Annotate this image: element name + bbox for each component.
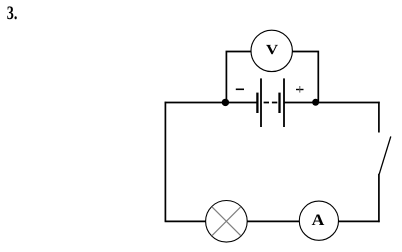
svg-text:V: V (266, 43, 278, 58)
wire: voltmeter branch right (meter right and down to dot) (292, 52, 318, 103)
ammeter A1 (299, 201, 338, 240)
wire: lamp to ammeter (247, 220, 300, 222)
wire: right vertical upper (above switch) (378, 102, 380, 133)
wire: top-right horizontal from battery to right corner (284, 102, 380, 104)
battery B1: short plate (cell 1 negative) (256, 93, 258, 113)
wire: top-left horizontal from left corner to battery (165, 102, 258, 104)
wire: bottom-left horizontal to lamp (165, 220, 206, 222)
wire: left vertical side (164, 102, 166, 222)
battery polarity label plus (296, 86, 304, 93)
battery B1: short plate (cell 2 negative) (278, 93, 280, 113)
svg-text:3.: 3. (7, 3, 18, 24)
wire: ammeter to bottom-right corner (338, 220, 379, 222)
wire: voltmeter branch left (dot up and right to meter) (226, 52, 251, 103)
node: right junction dot (312, 99, 319, 106)
switch S1 (open knife switch lever) (379, 136, 391, 174)
voltmeter V1 (251, 30, 292, 71)
node: left junction dot (222, 99, 229, 106)
battery polarity label minus (236, 88, 244, 90)
battery B1: long plate (cell 2 positive) (283, 78, 285, 127)
battery B1: long plate (cell 1 positive) (260, 78, 262, 127)
lamp L1 (206, 201, 248, 243)
battery B1: dashed link between cells (264, 102, 278, 104)
wire: right vertical lower (below switch) (378, 174, 380, 222)
svg-text:A: A (312, 212, 325, 229)
